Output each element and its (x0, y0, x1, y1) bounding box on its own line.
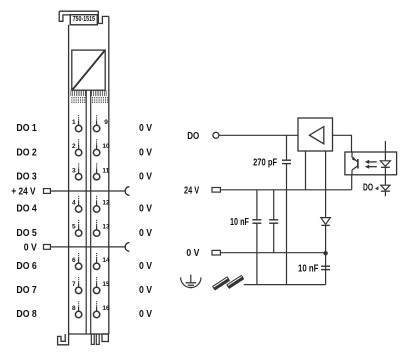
svg-text:15: 15 (102, 281, 110, 288)
svg-text:DO 3: DO 3 (16, 171, 37, 182)
svg-text:12: 12 (102, 200, 110, 207)
svg-text:DO 5: DO 5 (16, 228, 37, 239)
svg-text:0 V: 0 V (139, 123, 152, 134)
svg-text:DO 2: DO 2 (16, 147, 37, 158)
svg-text:0 V: 0 V (139, 309, 152, 320)
svg-text:6: 6 (72, 257, 76, 264)
svg-text:0 V: 0 V (139, 171, 152, 182)
svg-text:750-1515: 750-1515 (73, 16, 95, 23)
svg-text:8: 8 (72, 305, 76, 312)
svg-text:13: 13 (102, 224, 110, 231)
svg-text:0 V: 0 V (139, 261, 152, 272)
svg-text:16: 16 (102, 305, 110, 312)
svg-text:9: 9 (104, 119, 108, 126)
svg-text:14: 14 (102, 257, 110, 264)
svg-text:DO 8: DO 8 (16, 309, 37, 320)
svg-text:270 pF: 270 pF (253, 158, 277, 169)
svg-text:3: 3 (72, 167, 76, 174)
svg-text:10: 10 (102, 143, 110, 150)
svg-text:2: 2 (72, 143, 76, 150)
svg-text:DO 1: DO 1 (16, 123, 37, 134)
svg-text:5: 5 (72, 224, 76, 231)
svg-text:+ 24 V: + 24 V (11, 187, 35, 198)
svg-text:DO 6: DO 6 (16, 261, 37, 272)
svg-text:DO: DO (363, 182, 373, 193)
svg-text:1: 1 (72, 119, 76, 126)
svg-text:4: 4 (72, 200, 76, 207)
svg-text:0 V: 0 V (139, 228, 152, 239)
svg-text:10 nF: 10 nF (298, 263, 318, 274)
svg-text:0 V: 0 V (186, 248, 199, 259)
svg-text:DO: DO (187, 131, 199, 142)
svg-text:11: 11 (102, 167, 109, 174)
svg-text:DO 7: DO 7 (16, 285, 37, 296)
svg-text:DO 4: DO 4 (16, 204, 37, 215)
svg-text:10 nF: 10 nF (230, 217, 249, 228)
svg-text:0 V: 0 V (139, 285, 152, 296)
svg-text:0 V: 0 V (24, 242, 37, 253)
svg-text:7: 7 (72, 281, 76, 288)
svg-text:24 V: 24 V (184, 185, 199, 196)
svg-text:0 V: 0 V (139, 147, 152, 158)
svg-text:0 V: 0 V (139, 204, 152, 215)
